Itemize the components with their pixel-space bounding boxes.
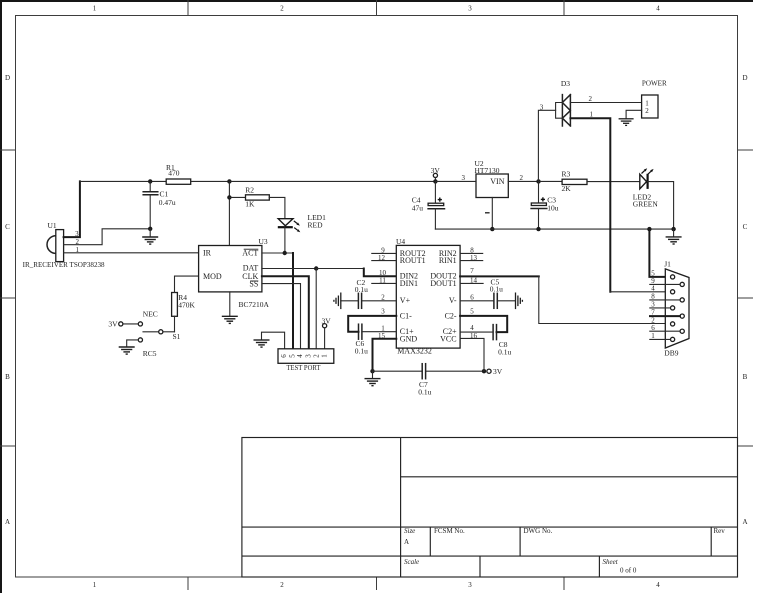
connector POWER bbox=[642, 79, 667, 119]
wire ACT vertical to test port pin5 bbox=[292, 253, 294, 350]
title block sheet divider bbox=[598, 556, 600, 577]
ground sideways at C5 bbox=[516, 293, 523, 310]
wire U3 GND bbox=[229, 292, 231, 316]
wire C1 to ground bbox=[149, 229, 151, 237]
svg-text:VIN: VIN bbox=[490, 177, 504, 186]
zone tick bottom 2/3 bbox=[376, 577, 378, 590]
capacitor C4 47u bbox=[412, 181, 445, 229]
zone tick left D/C bbox=[0, 149, 16, 151]
svg-text:1: 1 bbox=[651, 332, 655, 340]
svg-text:RIN1: RIN1 bbox=[439, 256, 457, 265]
svg-text:DOUT1: DOUT1 bbox=[430, 279, 456, 288]
svg-text:MOD: MOD bbox=[203, 272, 222, 281]
J1 pin stub 9 bbox=[650, 283, 680, 285]
wire C1- loop bbox=[348, 316, 396, 332]
capacitor C1 bbox=[143, 181, 176, 228]
junction R2 branch bbox=[227, 195, 231, 199]
capacitor C3 10u bbox=[531, 181, 559, 229]
svg-text:B: B bbox=[743, 373, 748, 381]
wire U3 MOD to R4 bbox=[175, 276, 199, 292]
wire output node to R3 bbox=[539, 180, 563, 182]
node RC5 ground throw bbox=[127, 338, 157, 358]
svg-text:5: 5 bbox=[470, 308, 474, 316]
ground at U4 GND bbox=[365, 379, 381, 386]
svg-text:C1: C1 bbox=[160, 189, 169, 198]
wire U3 supply vertical bbox=[228, 181, 230, 245]
IC U3 BC7210A bbox=[199, 237, 270, 309]
zone tick right D/C bbox=[738, 149, 754, 151]
svg-text:3: 3 bbox=[468, 5, 472, 13]
wire LED1 cathode to ACT bbox=[284, 227, 286, 253]
svg-text:FCSM No.: FCSM No. bbox=[434, 527, 465, 535]
IR receiver U1 bbox=[47, 221, 64, 262]
svg-text:4: 4 bbox=[656, 581, 660, 589]
svg-text:3: 3 bbox=[651, 301, 655, 309]
svg-text:0.1u: 0.1u bbox=[498, 347, 511, 356]
junction C1 bottom bbox=[148, 227, 152, 231]
junction DB9 pin5 gnd branch bbox=[647, 227, 651, 231]
U4 pin stub DOUT1 bbox=[460, 282, 483, 284]
title block main vertical divider bbox=[400, 438, 402, 578]
svg-text:Size: Size bbox=[404, 527, 415, 535]
svg-text:ROUT1: ROUT1 bbox=[400, 256, 426, 265]
J1 pin stub 1 bbox=[650, 338, 671, 340]
capacitor C8 bbox=[493, 325, 511, 357]
regulator U2 HT7130 bbox=[475, 159, 509, 213]
svg-text:A: A bbox=[5, 518, 10, 526]
svg-text:10u: 10u bbox=[547, 204, 559, 213]
wire C8 to C2+ bbox=[460, 331, 493, 333]
node 3V at regulator input bbox=[431, 166, 441, 182]
svg-text:4: 4 bbox=[656, 5, 660, 13]
wire D3 common to output node bbox=[538, 110, 555, 181]
svg-text:2K: 2K bbox=[562, 184, 572, 193]
svg-text:2: 2 bbox=[645, 107, 649, 115]
svg-text:TEST PORT: TEST PORT bbox=[287, 363, 321, 372]
svg-text:0.47u: 0.47u bbox=[159, 198, 176, 207]
wire V+ to C2 bbox=[362, 300, 397, 302]
resistor R2 bbox=[245, 186, 269, 209]
svg-text:U3: U3 bbox=[259, 237, 268, 246]
zone tick top 2/3 bbox=[376, 0, 378, 16]
ground sideways at C2 bbox=[334, 293, 341, 310]
title block scale-row divider bbox=[479, 556, 481, 577]
svg-text:4: 4 bbox=[651, 284, 655, 292]
svg-text:J1: J1 bbox=[664, 259, 671, 268]
resistor R1 bbox=[166, 163, 191, 184]
J1 pin stub 3 bbox=[650, 307, 671, 309]
J1 pin stub 7 bbox=[650, 315, 680, 317]
svg-text:RED: RED bbox=[308, 220, 324, 229]
node 3V at test port bbox=[322, 316, 332, 350]
title block FCSM divider bbox=[429, 527, 431, 556]
wire U1 pin3 to VCC rail bbox=[64, 181, 80, 237]
svg-text:B: B bbox=[5, 373, 10, 381]
svg-text:NEC: NEC bbox=[143, 309, 158, 318]
junction LED2 gnd bbox=[671, 227, 675, 231]
wire U3 SS to test port pin4 bbox=[262, 284, 301, 350]
wire POWER pin2 to ground bbox=[626, 110, 642, 118]
svg-text:D: D bbox=[5, 74, 10, 82]
connector J1 DB9 bbox=[664, 259, 689, 357]
ground at rail end bbox=[666, 229, 682, 244]
zone tick right C/B bbox=[738, 297, 754, 299]
switch S1 bbox=[143, 330, 181, 341]
svg-text:V-: V- bbox=[449, 296, 457, 305]
wire C6 to C1+ bbox=[362, 331, 396, 333]
wire U2 ground pin bbox=[491, 198, 493, 230]
svg-text:C: C bbox=[743, 223, 748, 231]
svg-text:C2-: C2- bbox=[445, 311, 457, 320]
svg-text:DIN1: DIN1 bbox=[400, 279, 418, 288]
title block Rev divider bbox=[710, 527, 712, 556]
connector TEST PORT bbox=[278, 349, 334, 372]
svg-text:3: 3 bbox=[468, 581, 472, 589]
junction ACT LED1 bbox=[283, 251, 287, 255]
wire U1 pin2 to C1 ground node bbox=[64, 229, 151, 245]
ground at test port bbox=[254, 340, 270, 347]
junction VCC 3V bbox=[482, 369, 486, 373]
title block outline bbox=[242, 438, 738, 578]
zone tick right B/A bbox=[738, 445, 754, 447]
svg-text:1: 1 bbox=[93, 581, 97, 589]
node NEC 3V throw bbox=[108, 309, 157, 328]
svg-text:2: 2 bbox=[280, 5, 284, 13]
wire C2- loop bbox=[460, 316, 507, 332]
svg-text:ACT: ACT bbox=[242, 249, 258, 258]
svg-text:1: 1 bbox=[320, 354, 328, 358]
junction C3 gnd rail bbox=[536, 227, 540, 231]
svg-text:GND: GND bbox=[400, 334, 418, 343]
svg-text:Scale: Scale bbox=[404, 558, 419, 566]
svg-text:3V: 3V bbox=[108, 320, 118, 329]
svg-text:4: 4 bbox=[296, 354, 304, 358]
wire ground stub bbox=[372, 371, 374, 378]
svg-text:2: 2 bbox=[312, 354, 320, 358]
wire test port pin6 to ground bbox=[262, 332, 285, 350]
junction 3V C4 bbox=[433, 179, 437, 183]
svg-text:0.1u: 0.1u bbox=[418, 388, 431, 397]
wire V- to C5 bbox=[460, 300, 494, 302]
wire D3 anode1 to DB9 pin4 bbox=[570, 118, 670, 292]
svg-text:470: 470 bbox=[168, 169, 180, 178]
zone tick bottom 1/2 bbox=[187, 577, 189, 590]
svg-text:RC5: RC5 bbox=[143, 349, 157, 358]
resistor R3 bbox=[562, 169, 588, 192]
svg-text:POWER: POWER bbox=[642, 79, 667, 88]
ground at RC5 bbox=[119, 347, 135, 354]
junction DAT branch bbox=[314, 266, 318, 270]
sheet outer border left edge bbox=[0, 0, 2, 593]
wire R3 to LED2 bbox=[587, 181, 640, 183]
wire 3V to U2 VIN bbox=[435, 180, 476, 182]
zone tick top 3/4 bbox=[563, 0, 565, 16]
wire DAT branch to test port pin2 bbox=[315, 269, 317, 351]
svg-text:R2: R2 bbox=[245, 186, 254, 195]
wire C7 to 3V bbox=[426, 370, 484, 372]
wire VCC to 3V junction bbox=[460, 338, 484, 371]
junction U3 supply branch bbox=[227, 179, 231, 183]
svg-text:8: 8 bbox=[651, 293, 655, 301]
wire GND rail to C7 bbox=[373, 370, 423, 372]
zone tick left B/A bbox=[0, 445, 16, 447]
ground rail bbox=[435, 228, 673, 230]
svg-text:0 of 0: 0 of 0 bbox=[620, 567, 637, 575]
svg-text:C: C bbox=[5, 223, 10, 231]
svg-text:3V: 3V bbox=[493, 367, 503, 376]
wire LED2 to ground rail bbox=[648, 182, 674, 230]
wire U3 CLK to test port pin3 bbox=[262, 276, 309, 350]
title block DWG divider bbox=[519, 527, 521, 556]
svg-text:D3: D3 bbox=[561, 79, 570, 88]
title block size-row top line bbox=[242, 526, 738, 528]
zone tick bottom 3/4 bbox=[563, 577, 565, 590]
junction C1 top bbox=[148, 179, 152, 183]
wire GND pin to ground rail bbox=[373, 339, 397, 371]
svg-text:IR: IR bbox=[203, 249, 212, 258]
svg-text:D: D bbox=[742, 74, 747, 82]
wire D3 anode2 to POWER pin1 bbox=[570, 102, 641, 104]
LED D1 LED1 RED bbox=[278, 213, 326, 233]
wire R2 left lead bbox=[229, 196, 245, 198]
svg-text:2: 2 bbox=[280, 581, 284, 589]
wire DOUT2 to DB9 pin2 bbox=[460, 276, 670, 323]
wire VCC rail left segment bbox=[80, 180, 166, 182]
U4 pin stub ROUT2 bbox=[372, 252, 397, 254]
title block upper-right horizontal divider bbox=[401, 476, 738, 478]
svg-text:0.1u: 0.1u bbox=[355, 347, 368, 356]
svg-text:0.1u: 0.1u bbox=[490, 285, 503, 294]
svg-text:1: 1 bbox=[93, 5, 97, 13]
svg-text:MAX3232: MAX3232 bbox=[397, 347, 432, 356]
wire U3 DAT to DIN2 bbox=[262, 268, 316, 270]
svg-text:4: 4 bbox=[470, 324, 474, 332]
J1 pin stub 8 bbox=[650, 299, 680, 301]
wire U2 out to D3 node bbox=[508, 180, 538, 182]
diode D3 dual bbox=[556, 79, 571, 126]
wire R2 to LED1 bbox=[269, 197, 285, 218]
U4 pin stub DIN1 bbox=[372, 282, 397, 284]
svg-text:47u: 47u bbox=[412, 204, 424, 213]
svg-text:2: 2 bbox=[381, 293, 385, 301]
svg-text:6: 6 bbox=[280, 354, 288, 358]
svg-text:V+: V+ bbox=[400, 296, 411, 305]
junction GND rail bbox=[370, 369, 374, 373]
U4 pin stub RIN1 bbox=[460, 260, 483, 262]
svg-text:Sheet: Sheet bbox=[603, 558, 619, 566]
svg-text:DWG No.: DWG No. bbox=[524, 527, 553, 535]
svg-text:3: 3 bbox=[304, 354, 312, 358]
svg-text:U1: U1 bbox=[48, 221, 57, 230]
wire R1 to R2 node bbox=[191, 180, 230, 182]
wire DIN2 entry bbox=[364, 269, 397, 277]
svg-text:6: 6 bbox=[470, 293, 474, 301]
U4 pin stub RIN2 bbox=[460, 252, 483, 254]
title block scale-row top line bbox=[242, 555, 738, 557]
capacitor C5 bbox=[490, 277, 516, 308]
svg-text:C1-: C1- bbox=[400, 311, 412, 320]
capacitor C6 bbox=[355, 324, 368, 355]
U4 pin stub ROUT1 bbox=[372, 260, 397, 262]
wire DAT to U4 DIN2 jog bbox=[316, 268, 364, 270]
svg-text:470K: 470K bbox=[178, 300, 195, 309]
svg-text:A: A bbox=[404, 538, 409, 546]
svg-text:7: 7 bbox=[470, 267, 474, 275]
capacitor C2 bbox=[341, 278, 368, 308]
capacitor C7 bbox=[418, 364, 431, 397]
LED LED2 GREEN bbox=[633, 168, 659, 208]
svg-text:DB9: DB9 bbox=[664, 348, 678, 357]
svg-text:3: 3 bbox=[381, 308, 385, 316]
svg-text:GREEN: GREEN bbox=[633, 200, 659, 209]
svg-text:S1: S1 bbox=[173, 332, 181, 341]
wire R4 bottom to S1 bbox=[174, 316, 176, 332]
svg-text:6: 6 bbox=[651, 324, 655, 332]
ground at POWER bbox=[619, 119, 634, 126]
sheet outer border top edge bbox=[0, 0, 753, 2]
junction U2 gnd rail bbox=[490, 227, 494, 231]
wire VCC rail to 3V node bbox=[229, 180, 435, 182]
ground at C1 bbox=[142, 237, 158, 244]
zone tick top 1/2 bbox=[187, 0, 189, 16]
svg-text:A: A bbox=[742, 518, 747, 526]
wire U3 ACT to test port bbox=[262, 252, 293, 254]
J1 pin stub 6 bbox=[650, 330, 680, 332]
svg-text:U4: U4 bbox=[396, 237, 405, 246]
junction regulator output bbox=[536, 179, 540, 183]
svg-text:1K: 1K bbox=[245, 200, 255, 209]
resistor R4 bbox=[172, 293, 196, 317]
svg-text:Rev: Rev bbox=[714, 527, 726, 535]
ground at U3 bbox=[222, 316, 238, 323]
svg-text:VCC: VCC bbox=[440, 334, 456, 343]
wire U1 pin1 to U3 IR pin bbox=[64, 252, 199, 254]
zone tick left C/B bbox=[0, 297, 16, 299]
svg-text:HT7130: HT7130 bbox=[475, 166, 500, 175]
svg-text:R3: R3 bbox=[562, 169, 571, 178]
node 3V at U4 bbox=[487, 367, 503, 376]
svg-text:BC7210A: BC7210A bbox=[239, 300, 270, 309]
wire ground rail to DB9 pin5 bbox=[649, 229, 670, 277]
svg-text:2: 2 bbox=[589, 95, 593, 103]
IC U4 MAX3232 bbox=[396, 237, 460, 356]
